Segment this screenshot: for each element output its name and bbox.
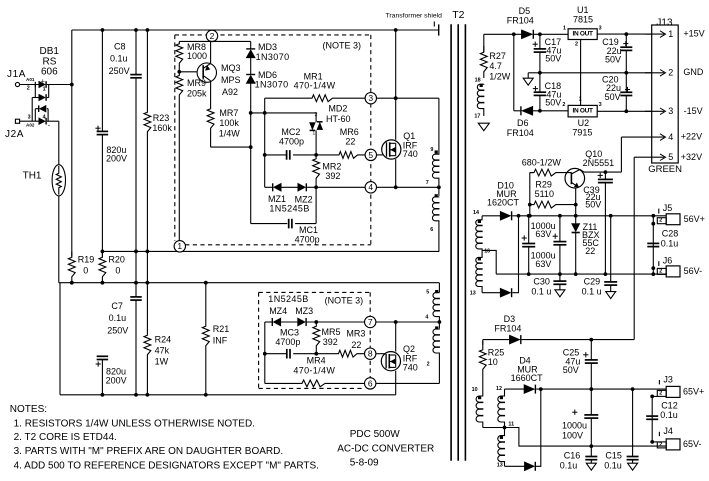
wire U1 gnd pin down: [580, 40, 582, 73]
primary winding P2 (pins 7-6): [437, 185, 441, 189]
resistor MR3 22: [314, 352, 318, 356]
svg-text:+: +: [41, 79, 45, 86]
svg-text:MZ3: MZ3: [295, 306, 313, 316]
resistor MR9 205k: [176, 72, 183, 241]
svg-text:4700p: 4700p: [279, 136, 304, 146]
svg-text:1: 1: [312, 131, 315, 137]
wire aux row to D5: [484, 33, 514, 35]
capacitor C25 47u 50V: [590, 340, 592, 360]
svg-text:1/2W: 1/2W: [489, 71, 511, 81]
svg-text:7815: 7815: [573, 14, 593, 24]
svg-text:10: 10: [488, 357, 498, 367]
svg-text:C8: C8: [114, 41, 126, 51]
svg-text:MZ4: MZ4: [269, 306, 287, 316]
svg-text:1: 1: [177, 241, 182, 251]
wire Q10 emitter down to 56V+ rail: [575, 188, 577, 216]
secondary winding S2 (pins 14-16) to D10: [481, 216, 483, 220]
svg-text:2. T2 CORE IS ETD44.: 2. T2 CORE IS ETD44.: [14, 432, 117, 443]
svg-text:2: 2: [27, 86, 30, 92]
ground symbol below pin17: [478, 123, 489, 131]
zener MZ1 1N5245B: [265, 186, 273, 188]
svg-text:1N3070: 1N3070: [255, 79, 289, 89]
svg-text:NOTES:: NOTES:: [10, 404, 47, 415]
svg-text:AC-DC CONVERTER: AC-DC CONVERTER: [337, 443, 434, 454]
capacitor C30 0.1u to ground: [559, 274, 561, 281]
diode DB1-d: [39, 118, 45, 125]
svg-text:50V: 50V: [585, 199, 601, 209]
terminal J2A: [15, 119, 19, 123]
svg-text:12: 12: [496, 386, 502, 392]
resistor MR4 470-1/4W: [265, 382, 301, 384]
node bottom rail of lower-left section y=394.8: [60, 394, 396, 396]
wire lower box left vertical: [264, 322, 266, 383]
svg-text:D6: D6: [517, 118, 529, 128]
svg-text:3: 3: [368, 93, 373, 103]
secondary winding S3 (pins 16-13): [481, 250, 483, 257]
svg-text:470-1/4W: 470-1/4W: [294, 81, 336, 91]
svg-text:0: 0: [115, 266, 120, 276]
svg-text:9: 9: [430, 147, 433, 153]
wire MD6 to junction: [250, 83, 252, 223]
svg-text:2: 2: [659, 268, 662, 274]
svg-text:0.1 u: 0.1 u: [531, 286, 551, 296]
svg-text:2: 2: [659, 442, 662, 448]
resistor MR6 22: [316, 152, 365, 159]
svg-text:13: 13: [497, 463, 503, 469]
svg-text:0.1u: 0.1u: [604, 460, 622, 470]
transistor Q1 IRF740: [382, 140, 401, 159]
svg-text:50V: 50V: [605, 92, 621, 102]
svg-text:C29: C29: [584, 276, 601, 286]
dual diode MD2 HT-60: [315, 113, 317, 122]
svg-text:IN OUT: IN OUT: [572, 31, 593, 38]
wire MR7 bottom corner to MD6 line: [211, 146, 251, 148]
svg-text:U2: U2: [578, 118, 590, 128]
svg-text:4.7: 4.7: [489, 61, 502, 71]
node circle 5: [365, 149, 376, 160]
resistor R25 10: [482, 340, 484, 345]
svg-text:65V-: 65V-: [683, 439, 702, 449]
svg-text:63V: 63V: [535, 259, 551, 269]
svg-text:7915: 7915: [572, 128, 592, 138]
resistor MR8 1000: [176, 41, 183, 71]
svg-text:R27: R27: [489, 51, 506, 61]
node top bus (+rectified rail): [72, 29, 439, 31]
svg-text:6: 6: [430, 227, 433, 233]
svg-text:1000u: 1000u: [562, 420, 587, 430]
resistor MR1 470-1/4W: [265, 95, 371, 102]
capacitor MC3 4700p: [265, 353, 287, 355]
svg-text:100V: 100V: [562, 430, 583, 440]
svg-text:1660CT: 1660CT: [511, 373, 544, 383]
wire bridge row2: [32, 97, 39, 99]
svg-text:3: 3: [599, 102, 602, 108]
svg-text:5110: 5110: [535, 189, 554, 199]
dashed daughterboard box (lower): [259, 291, 371, 293]
svg-text:C16: C16: [564, 451, 581, 461]
svg-text:6: 6: [368, 378, 373, 388]
svg-text:17: 17: [474, 114, 480, 120]
svg-text:-15V: -15V: [684, 106, 703, 116]
resistor R24 47k 1W: [144, 283, 151, 395]
svg-text:200V: 200V: [106, 376, 127, 386]
svg-text:MD3: MD3: [258, 42, 277, 52]
svg-text:63V: 63V: [535, 229, 551, 239]
svg-text:R21: R21: [213, 324, 230, 334]
capacitor 1000u 100V: [590, 389, 592, 415]
svg-text:IN OUT: IN OUT: [572, 107, 593, 114]
wire row y=112.9 MR7/MD6 to MD2: [251, 112, 316, 114]
wire vertical x=264.7 (MR1 left to MZ row): [264, 98, 266, 187]
wire center tap jog to 65V- rail: [505, 428, 667, 447]
capacitor C18 47u 50V: [539, 73, 541, 92]
svg-text:A01: A01: [26, 77, 35, 82]
resistor R21 INF: [202, 283, 209, 395]
svg-text:HT-60: HT-60: [326, 114, 351, 124]
svg-text:R19: R19: [78, 255, 95, 265]
capacitor MC1 4700p: [251, 223, 288, 225]
resistor MR2 392: [313, 155, 320, 187]
svg-text:13: 13: [470, 290, 476, 296]
thermistor TH1: [52, 165, 65, 196]
svg-text:T2: T2: [452, 9, 464, 21]
svg-text:2: 2: [659, 390, 662, 396]
zener Z11 BZX55C22: [575, 216, 577, 224]
capacitor 820u 200V (upper): [101, 30, 103, 131]
resistor MR7 100k 1/4W: [207, 81, 214, 147]
capacitor C7 0.1u 250V: [130, 296, 142, 298]
svg-text:7: 7: [426, 180, 429, 186]
svg-text:J13: J13: [656, 18, 673, 29]
svg-text:5: 5: [368, 150, 373, 160]
zener MZ2: [281, 186, 298, 188]
transistor Q2 IRF740: [381, 352, 400, 371]
svg-text:1N5245B: 1N5245B: [268, 294, 308, 304]
svg-text:5-8-09: 5-8-09: [350, 458, 379, 469]
capacitor C39 22u 50V: [604, 172, 606, 179]
node MR8/MR9/base junction: [177, 70, 181, 74]
capacitor MC2 4700p: [265, 154, 287, 156]
terminal J1A: [15, 82, 19, 86]
svg-text:0.1u: 0.1u: [560, 460, 578, 470]
svg-text:FR104: FR104: [507, 16, 534, 26]
svg-text:MC3: MC3: [280, 327, 299, 337]
svg-text:22: 22: [585, 246, 595, 256]
secondary winding S5 (pin 12): [504, 389, 506, 396]
primary winding P1 (pins 9-7): [438, 98, 440, 154]
primary winding P4 (pins 3-2): [438, 322, 440, 328]
svg-text:470-1/4W: 470-1/4W: [293, 365, 335, 375]
svg-text:4700p: 4700p: [295, 235, 320, 245]
wire U2 out to J13-3: [597, 110, 652, 112]
node circle 4: [365, 182, 376, 193]
wire Q10 collector to +22V: [580, 169, 584, 172]
svg-text:R23: R23: [153, 113, 170, 123]
capacitor 1000u 63V (B): [559, 216, 561, 242]
svg-text:200V: 200V: [106, 154, 127, 164]
svg-text:PDC 500W: PDC 500W: [350, 429, 401, 440]
resistor R23 160k: [146, 29, 148, 31]
svg-text:606: 606: [41, 67, 58, 78]
resistor R20 0: [101, 250, 105, 254]
capacitor C29 0.1u to ground: [610, 216, 612, 282]
capacitor C16 0.1u to ground: [590, 446, 592, 456]
wire bridge minus output down to TH1: [58, 121, 60, 165]
svg-text:J4: J4: [663, 426, 673, 436]
svg-text:MR5: MR5: [322, 327, 341, 337]
svg-text:INF: INF: [213, 335, 228, 345]
diode DB1-c: [40, 105, 46, 112]
resistor R29 5110: [530, 201, 576, 208]
svg-text:1: 1: [563, 26, 566, 32]
svg-text:GND: GND: [683, 67, 704, 77]
node circle 1: [174, 241, 185, 252]
svg-text:3. PARTS WITH "M" PREFIX ARE: 3. PARTS WITH "M" PREFIX ARE ON DAUGHTER…: [14, 446, 284, 457]
svg-text:250V: 250V: [109, 66, 130, 76]
capacitor 1000u 63V (A): [528, 216, 530, 244]
secondary winding S4 (pin 10): [482, 378, 484, 396]
wire left edge of lower-left section: [59, 283, 61, 395]
svg-text:3: 3: [668, 106, 673, 116]
svg-text:+22V: +22V: [681, 132, 702, 142]
svg-text:4700p: 4700p: [275, 337, 300, 347]
svg-text:C30: C30: [533, 276, 550, 286]
diode D4 (lower): [505, 465, 525, 467]
svg-text:1N3070: 1N3070: [256, 52, 290, 62]
wire gate to Q2: [376, 353, 386, 355]
svg-text:50V: 50V: [545, 98, 561, 108]
wire D5/D6 connector vertical: [513, 34, 515, 111]
svg-text:250V: 250V: [107, 325, 128, 335]
svg-text:1620CT: 1620CT: [487, 198, 520, 208]
capacitor C8 0.1u 250V: [135, 30, 137, 75]
svg-text:5: 5: [668, 152, 673, 162]
svg-text:0: 0: [83, 266, 88, 276]
node circle 3: [365, 93, 376, 104]
capacitor C15 0.1u to ground: [632, 389, 634, 456]
wire inner top rail of upper box: [179, 40, 250, 42]
svg-text:2: 2: [668, 68, 673, 78]
svg-text:205k: 205k: [187, 88, 207, 98]
svg-text:2N5551: 2N5551: [583, 158, 615, 168]
svg-text:740: 740: [403, 363, 418, 373]
svg-text:22: 22: [351, 340, 361, 350]
transformer core lines: [450, 24, 452, 461]
svg-text:2: 2: [210, 31, 215, 41]
node circle 7: [365, 316, 376, 327]
resistor R19 0: [68, 251, 75, 282]
svg-text:740: 740: [403, 149, 418, 159]
svg-text:1: 1: [43, 87, 46, 93]
svg-text:A02: A02: [26, 123, 35, 128]
wire MR1 row to drain junction: [377, 97, 439, 99]
primary winding P3 (pins 5-4): [438, 283, 440, 292]
wire left bus vertical x=71.8: [71, 30, 73, 257]
svg-text:100k: 100k: [219, 118, 239, 128]
svg-text:2: 2: [315, 112, 318, 118]
node MC2 row junction: [314, 153, 318, 157]
svg-text:4. ADD 500 TO REFERENCE DESIG: 4. ADD 500 TO REFERENCE DESIGNATORS EXCE…: [14, 460, 319, 471]
node lower-left top rail y=282.7: [59, 282, 439, 284]
svg-text:2: 2: [659, 218, 662, 224]
svg-text:MPS: MPS: [221, 75, 241, 85]
svg-text:392: 392: [323, 337, 338, 347]
diode MD3 1N3070: [250, 41, 252, 49]
svg-text:50V: 50V: [545, 54, 561, 64]
dashed daughterboard box (upper): [175, 34, 371, 36]
node 56V- rail: [496, 273, 666, 275]
capacitor C19 22u 50V: [625, 34, 627, 47]
svg-text:R20: R20: [108, 255, 125, 265]
svg-text:J6: J6: [663, 256, 673, 266]
svg-text:(NOTE 3): (NOTE 3): [325, 296, 364, 306]
svg-text:MQ3: MQ3: [221, 63, 241, 73]
svg-text:J3: J3: [663, 374, 673, 384]
wire J1A to bridge: [20, 84, 39, 86]
transistor MQ3 MPSA92: [197, 63, 216, 82]
node circle 2: [206, 30, 217, 41]
svg-text:MD2: MD2: [328, 104, 347, 114]
svg-text:J2A: J2A: [5, 129, 24, 140]
wire center tap to 56V- rail: [482, 250, 496, 274]
svg-text:FR104: FR104: [494, 324, 521, 334]
capacitor C17 47u 50V: [539, 34, 541, 49]
svg-text:J1A: J1A: [7, 69, 26, 80]
svg-text:8: 8: [368, 349, 373, 359]
svg-text:+32V: +32V: [681, 152, 702, 162]
svg-text:GREEN: GREEN: [648, 164, 682, 175]
svg-text:47k: 47k: [155, 345, 170, 355]
diode DB1-a: [39, 81, 45, 88]
svg-text:A92: A92: [222, 87, 238, 97]
svg-text:Transformer shield: Transformer shield: [386, 13, 443, 20]
svg-text:11: 11: [508, 422, 514, 428]
node 56V+ rail: [519, 215, 667, 217]
svg-text:56V-: 56V-: [684, 266, 703, 276]
wire MZ row to node4 and winding tap: [306, 186, 439, 188]
svg-text:50V: 50V: [563, 365, 579, 375]
svg-text:22: 22: [345, 136, 355, 146]
diode D10 (lower): [482, 292, 500, 294]
node rail to primary winding (node1 rail y=251.4): [102, 250, 439, 252]
svg-text:14: 14: [473, 210, 479, 216]
svg-text:4: 4: [425, 314, 428, 320]
secondary winding S6 (pin 13): [504, 428, 506, 436]
svg-text:3: 3: [599, 26, 602, 32]
svg-text:2: 2: [427, 362, 430, 368]
svg-text:FR104: FR104: [507, 128, 534, 138]
svg-text:0.1u: 0.1u: [660, 410, 678, 420]
svg-text:3: 3: [28, 115, 31, 121]
svg-text:C7: C7: [111, 301, 123, 311]
regulator U2 7915: [568, 105, 597, 117]
capacitor 820u 200V (lower): [97, 355, 109, 357]
svg-text:C28: C28: [662, 229, 679, 239]
wire winding S4 bottom to tap: [483, 427, 505, 429]
wire TH1 down to lower rail: [58, 196, 60, 283]
svg-text:R29: R29: [535, 179, 552, 189]
node circle 6: [365, 378, 376, 389]
svg-text:4: 4: [668, 132, 673, 142]
resistor MR5 392: [313, 322, 320, 354]
svg-text:MR9: MR9: [187, 78, 206, 88]
svg-text:18: 18: [475, 78, 481, 84]
capacitor C20 22u 50V: [625, 73, 627, 93]
wire U2 gnd pin up: [580, 73, 582, 106]
svg-text:0.1u: 0.1u: [109, 313, 127, 323]
svg-text:TH1: TH1: [23, 170, 42, 181]
wire bridge verticals: [34, 85, 36, 98]
svg-text:4: 4: [43, 115, 46, 121]
svg-text:(NOTE 3): (NOTE 3): [323, 40, 362, 50]
svg-text:0.1 u: 0.1 u: [582, 286, 602, 296]
svg-text:56V+: 56V+: [684, 214, 705, 224]
svg-text:50V: 50V: [605, 55, 621, 65]
svg-text:1N5245B: 1N5245B: [269, 203, 309, 213]
svg-text:10: 10: [472, 387, 478, 393]
capacitor C12 0.1u: [651, 396, 653, 442]
svg-text:1000: 1000: [187, 51, 207, 61]
svg-text:J5: J5: [663, 203, 673, 213]
diode DB1-b: [39, 94, 45, 101]
svg-text:5: 5: [426, 290, 429, 296]
svg-text:+15V: +15V: [683, 29, 704, 39]
svg-text:4: 4: [368, 182, 373, 192]
capacitor C28 0.1u: [652, 216, 654, 274]
svg-text:1: 1: [668, 29, 673, 39]
svg-text:R24: R24: [155, 334, 172, 344]
svg-text:65V+: 65V+: [683, 387, 704, 397]
svg-text:1W: 1W: [155, 356, 169, 366]
svg-text:680-1/2W: 680-1/2W: [522, 157, 562, 167]
diode MD6 1N3070: [250, 58, 252, 75]
svg-text:2: 2: [562, 102, 565, 108]
wire +32V feed: [633, 157, 635, 339]
svg-text:MR3: MR3: [346, 329, 365, 339]
wire GND row y=72.8: [540, 72, 652, 74]
ground node between C17/C18: [528, 72, 540, 74]
svg-text:2: 2: [575, 42, 578, 48]
svg-text:MR2: MR2: [322, 162, 341, 172]
svg-text:MC1: MC1: [299, 225, 318, 235]
svg-text:0.1u: 0.1u: [661, 239, 679, 249]
svg-text:1. RESISTORS 1/4W UNLESS OTHE: 1. RESISTORS 1/4W UNLESS OTHERWISE NOTED…: [14, 419, 255, 430]
svg-text:MR4: MR4: [307, 356, 326, 366]
svg-text:160k: 160k: [152, 123, 172, 133]
node circle 8: [365, 348, 376, 359]
svg-text:D5: D5: [519, 6, 531, 16]
svg-text:MR7: MR7: [219, 108, 238, 118]
wire node7 row: [306, 321, 439, 323]
svg-text:7: 7: [368, 317, 373, 327]
svg-text:0.1u: 0.1u: [110, 54, 128, 64]
svg-text:1/4W: 1/4W: [219, 128, 241, 138]
wire +22V feed: [620, 137, 622, 172]
svg-text:C15: C15: [605, 451, 622, 461]
wire node6 row to winding4 bottom: [376, 382, 439, 384]
wire base-network vertical: [529, 173, 531, 216]
wire gate to Q1: [377, 154, 387, 156]
secondary winding S1 (pins 18-17) with R27: [483, 34, 485, 52]
svg-text:392: 392: [325, 171, 340, 181]
wire U1 out to J13-1: [597, 33, 652, 35]
svg-text:16: 16: [484, 249, 490, 255]
